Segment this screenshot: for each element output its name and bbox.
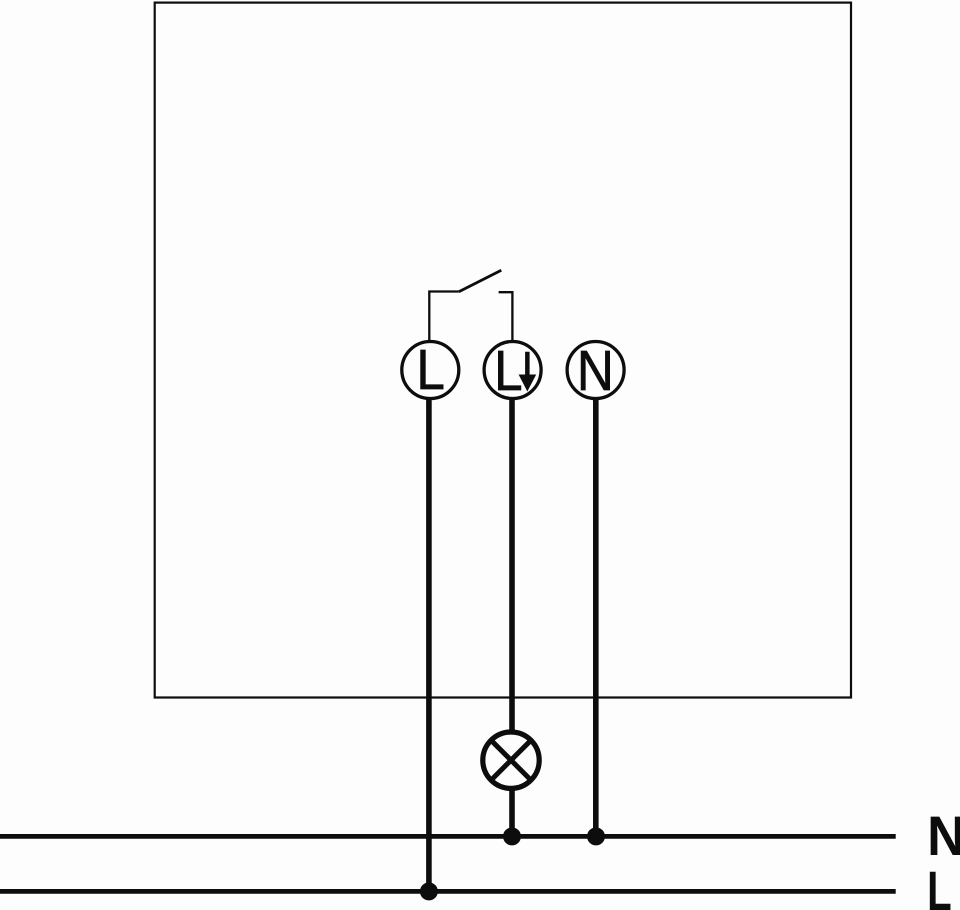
svg-text:N: N [927, 804, 960, 867]
svg-text:L: L [416, 338, 445, 402]
svg-text:L: L [927, 859, 952, 910]
svg-text:L: L [494, 339, 523, 403]
svg-text:N: N [577, 339, 614, 403]
